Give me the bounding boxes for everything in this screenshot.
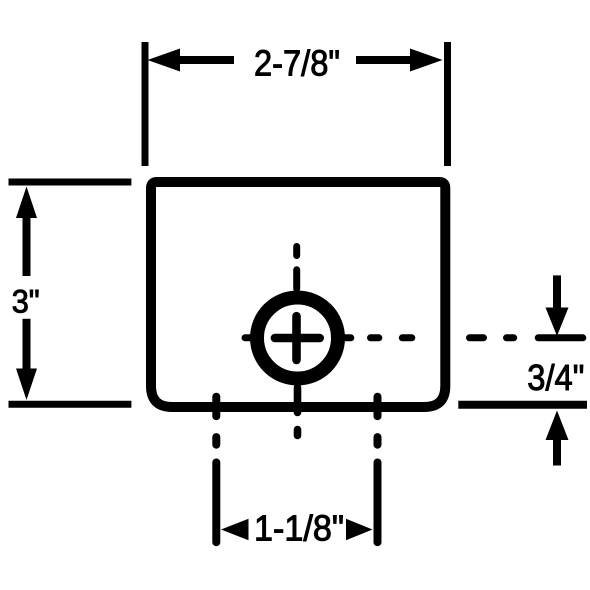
hole circle	[257, 298, 338, 379]
bottom dimension right arrowhead	[346, 519, 373, 541]
left dimension top extension line	[9, 179, 132, 186]
hole cross mark vertical	[292, 316, 301, 360]
bottom dimension right extension centerline	[374, 397, 382, 417]
svg-text:3": 3"	[12, 284, 40, 320]
left dimension bottom extension line	[9, 401, 132, 408]
svg-text:1-1/8": 1-1/8"	[254, 507, 344, 548]
svg-text:2-7/8": 2-7/8"	[254, 43, 340, 84]
right dimension down arrow	[546, 308, 569, 337]
left dimension down arrow	[16, 369, 37, 401]
top dimension left arrow	[148, 49, 181, 72]
horizontal centerline right dashes	[345, 334, 351, 341]
svg-text:3/4": 3/4"	[527, 357, 584, 398]
right dimension bottom reference line	[458, 401, 587, 409]
left dimension up arrow	[16, 187, 37, 219]
top dimension right extension line	[444, 42, 451, 166]
top dimension left extension line	[142, 42, 149, 166]
top dimension right arrow	[410, 49, 443, 72]
part outline (rounded-bottom rectangle body)	[151, 182, 445, 407]
horizontal centerline left tick	[245, 334, 253, 341]
vertical centerline above hole	[293, 247, 300, 256]
hole cross mark horizontal	[275, 334, 320, 343]
bottom dimension left arrowhead	[221, 519, 249, 541]
vertical centerline below hole	[294, 388, 302, 413]
bottom dimension left extension centerline	[212, 397, 220, 417]
right dimension up arrow	[546, 411, 569, 441]
